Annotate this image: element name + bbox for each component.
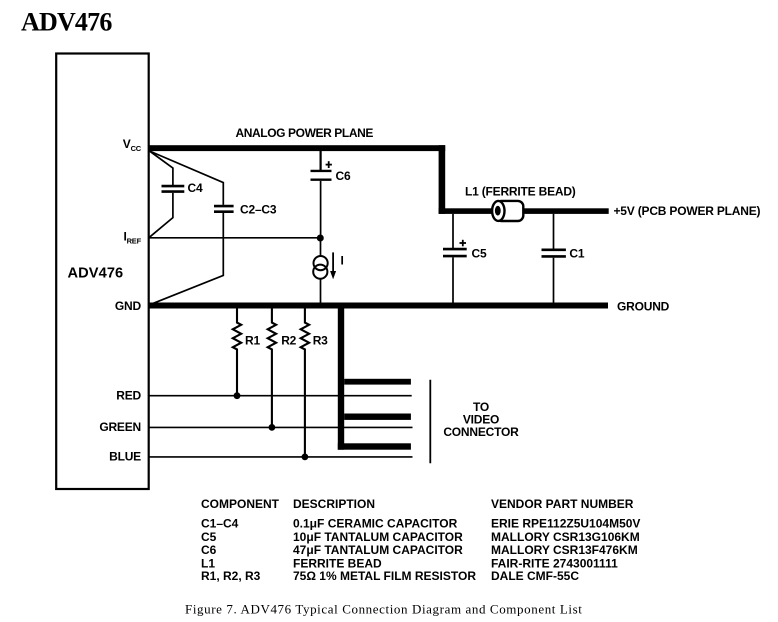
polarity mark + for C5 [460,240,467,247]
svg-text:R3: R3 [313,334,328,348]
net label +5V (PCB POWER PLANE) [614,204,761,218]
svg-text:ANALOG POWER PLANE: ANALOG POWER PLANE [236,126,374,140]
wire RED [150,395,412,397]
pin label VCC [123,137,142,153]
resistor R3 [301,308,309,457]
net label GROUND [617,300,670,314]
wire: C6 bottom to IREF node [320,181,322,238]
wire: thick drop from analog power plane to +5V rail [439,145,446,214]
capacitor C6 [311,171,332,180]
capacitor C2-C3 [214,206,234,212]
label R1 [245,334,260,348]
wire: +5V bus [439,208,609,214]
resistor R2 [268,308,276,427]
svg-text:10μF TANTALUM CAPACITOR: 10μF TANTALUM CAPACITOR [293,530,463,544]
component table header [201,497,634,511]
IC U1 ADV476 body [56,54,149,490]
svg-text:DESCRIPTION: DESCRIPTION [293,497,375,511]
current source I [313,256,328,279]
node: R1 to RED junction dot [234,392,241,399]
svg-text:ERIE RPE112Z5U104M50V: ERIE RPE112Z5U104M50V [491,517,640,531]
svg-text:I: I [341,254,344,268]
svg-text:C2–C3: C2–C3 [240,203,277,217]
svg-text:DALE CMF-55C: DALE CMF-55C [491,569,579,583]
svg-text:C5: C5 [472,247,487,261]
component table row L1 [201,557,618,571]
component table row R1, R2, R3 [201,569,579,583]
component table row C5 [201,530,640,544]
svg-text:C4: C4 [188,181,203,195]
pin label RED [116,389,141,403]
shield stub to RED coax [344,379,411,385]
net label ANALOG POWER PLANE [236,126,374,140]
svg-text:CONNECTOR: CONNECTOR [443,425,519,439]
svg-text:COMPONENT: COMPONENT [201,497,280,511]
node: R3 to BLUE junction dot [302,454,309,461]
resistor R1 [233,308,241,396]
svg-text:RED: RED [116,389,141,403]
wire: C4 bottom to IREF pin [150,193,173,237]
label C5 [472,247,487,261]
page title ADV476 [21,8,112,37]
svg-text:R1: R1 [245,334,260,348]
svg-text:MALLORY CSR13F476KM: MALLORY CSR13F476KM [491,543,638,557]
current direction arrow [330,252,336,279]
pin label IREF [123,230,141,246]
label C6 [336,169,351,183]
wire: C2-C3 bottom to GND pin [150,213,224,305]
node: R2 to GREEN junction dot [269,424,276,431]
svg-text:ADV476: ADV476 [21,8,112,37]
label R2 [281,334,296,348]
shield stub to BLUE coax [338,443,411,449]
label C1 [569,246,584,260]
component table row C6 [201,543,638,557]
svg-text:IREF: IREF [123,230,141,246]
wire: current source to ground bus [320,279,322,303]
component table row C1-C4 [201,517,640,531]
svg-text:C1: C1 [569,246,584,260]
wire: VCC pin to C2-C3 top [150,151,224,205]
inductor L1 ferrite bead [492,201,523,221]
shield stub to GREEN coax [344,414,411,420]
svg-text:75Ω 1% METAL FILM RESISTOR: 75Ω 1% METAL FILM RESISTOR [293,569,476,583]
svg-text:R1, R2, R3: R1, R2, R3 [201,569,261,583]
wire: analog power plane bus from VCC pin [148,145,445,151]
label L1 (FERRITE BEAD) [465,185,576,199]
svg-text:ADV476: ADV476 [68,266,124,282]
IC label ADV476 [68,266,124,282]
figure caption [185,602,582,617]
svg-text:L1 (FERRITE BEAD): L1 (FERRITE BEAD) [465,185,576,199]
polarity mark + for C6 [326,161,332,168]
wire: IREF pin to current-source node [150,237,321,239]
svg-text:VENDOR PART NUMBER: VENDOR PART NUMBER [491,497,634,511]
svg-text:R2: R2 [281,334,296,348]
label C2-C3 [240,203,277,217]
wire: C5 bottom to ground bus [452,257,454,303]
pin label GREEN [99,420,141,434]
pin label BLUE [109,450,141,464]
capacitor C1 [542,250,566,257]
svg-text:0.1μF CERAMIC CAPACITOR: 0.1μF CERAMIC CAPACITOR [293,517,458,531]
svg-text:GREEN: GREEN [99,420,141,434]
wire: power plane down to C6 [320,151,322,171]
label C4 [188,181,203,195]
node: IREF junction dot [317,235,324,242]
svg-text:C6: C6 [201,543,217,557]
svg-text:GND: GND [115,299,142,313]
capacitor C5 [443,249,467,256]
svg-text:GROUND: GROUND [617,300,670,314]
wire: IREF node down to current source [320,238,322,256]
svg-text:MALLORY CSR13G106KM: MALLORY CSR13G106KM [491,530,640,544]
svg-text:C1–C4: C1–C4 [201,517,239,531]
connector bracket [429,380,431,464]
label I [341,254,344,268]
svg-text:VCC: VCC [123,137,142,153]
wire: C1 bottom to ground bus [553,258,555,303]
pin label GND [115,299,142,313]
wire: VCC pin to C4 top [150,151,173,185]
svg-text:C5: C5 [201,530,217,544]
svg-text:C6: C6 [336,169,351,183]
svg-text:47μF TANTALUM CAPACITOR: 47μF TANTALUM CAPACITOR [293,543,463,557]
wire: +5V rail down to C1 [553,214,555,249]
wire BLUE [150,456,413,458]
video connector shield bus (thick vertical from ground) [338,306,344,450]
svg-text:BLUE: BLUE [109,450,141,464]
label TO VIDEO CONNECTOR [443,400,519,439]
svg-text:+5V (PCB POWER PLANE): +5V (PCB POWER PLANE) [614,204,761,218]
wire: +5V rail down to C5 [452,214,454,248]
svg-text:Figure 7. ADV476 Typical Conne: Figure 7. ADV476 Typical Connection Diag… [185,602,582,617]
label R3 [313,334,328,348]
wire GREEN [150,426,413,428]
wire: ground bus [148,303,608,309]
capacitor C4 [162,186,185,192]
